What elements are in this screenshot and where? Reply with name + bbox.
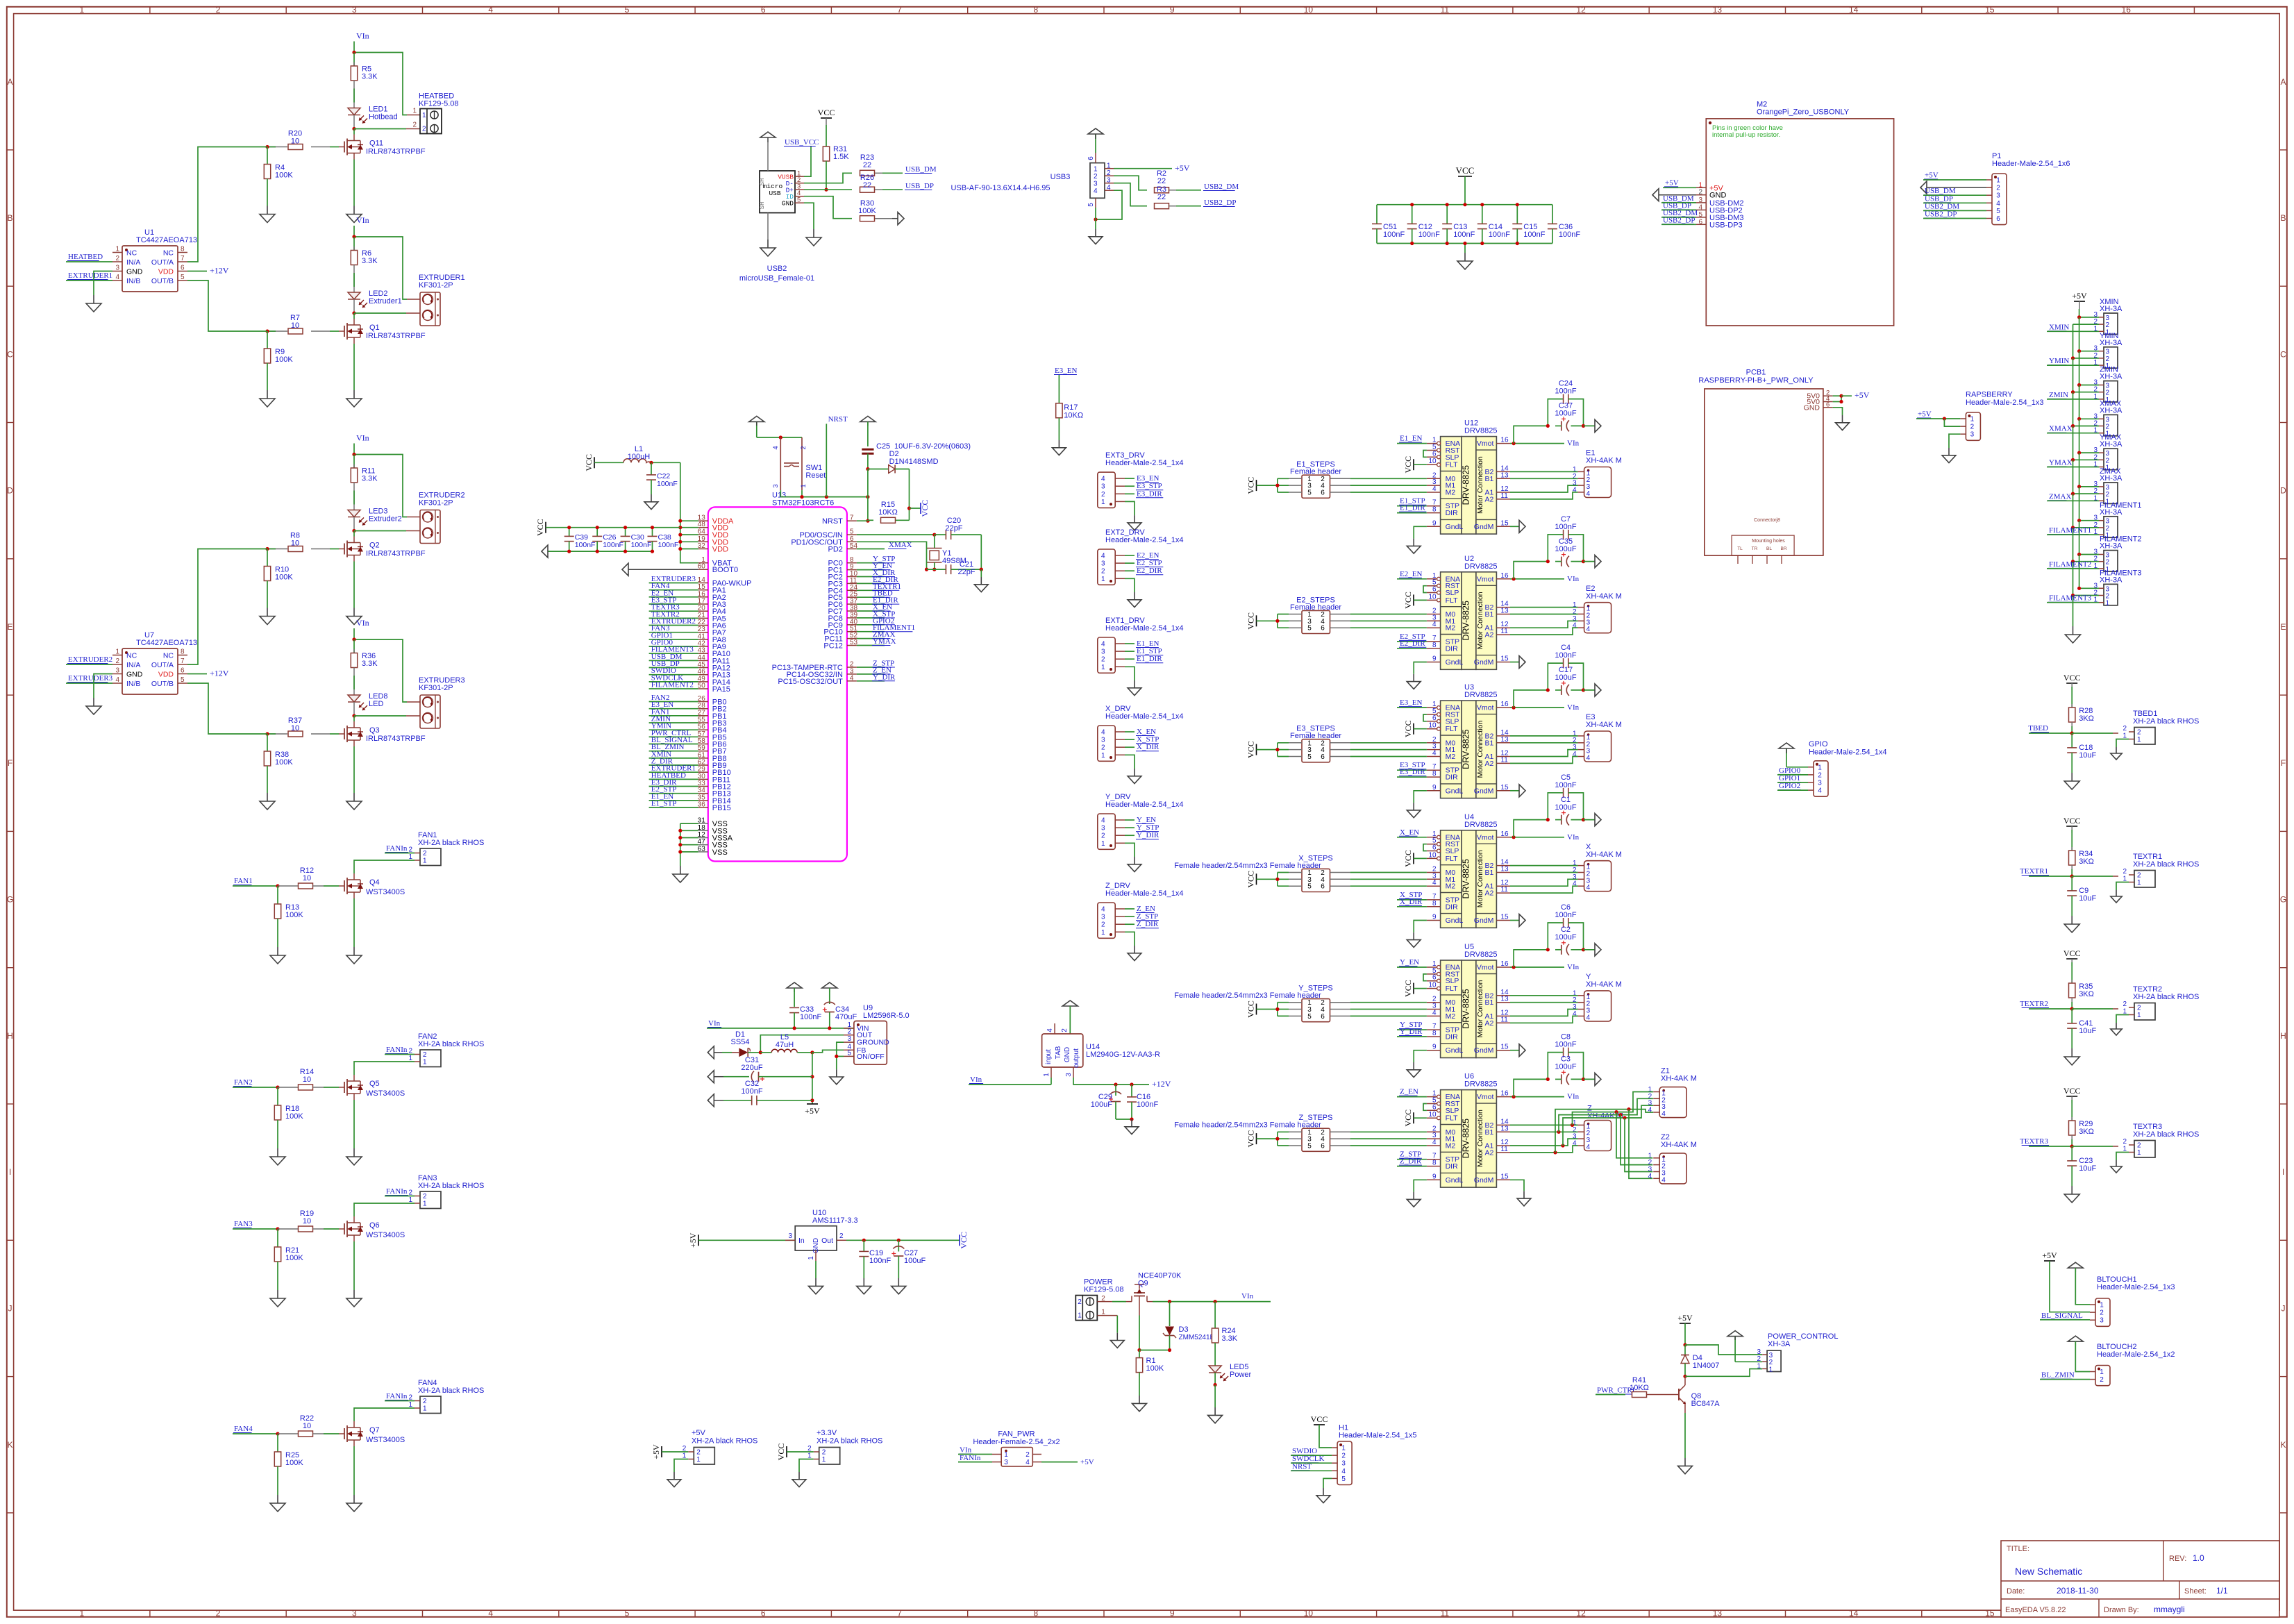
transistor Q5 WST3400S bbox=[339, 1075, 405, 1100]
wire +5V to XMIN pin3 bbox=[2079, 317, 2099, 318]
header P1 Header-Male-2.54_1x6 bbox=[1986, 152, 2070, 225]
ground below Z_DRV bbox=[1134, 946, 1135, 953]
svg-text:E1_EN: E1_EN bbox=[1400, 435, 1422, 443]
svg-text:Header-Male-2.54_1x2: Header-Male-2.54_1x2 bbox=[2097, 1350, 2175, 1359]
svg-text:6: 6 bbox=[1432, 450, 1437, 458]
svg-text:2018-11-30: 2018-11-30 bbox=[2057, 1586, 2099, 1596]
svg-text:6: 6 bbox=[1321, 883, 1325, 891]
wire U6 B1 to Z pin2 bbox=[1510, 1131, 1578, 1132]
svg-text:STM32F103RCT6: STM32F103RCT6 bbox=[772, 499, 834, 507]
wire +5V to YMAX pin3 bbox=[2079, 452, 2099, 453]
junction +5V rail FILAMENT2 bbox=[2077, 553, 2081, 556]
power flag +12V at U7 VDD bbox=[187, 669, 229, 678]
svg-text:22pF: 22pF bbox=[945, 524, 962, 533]
svg-text:9: 9 bbox=[1432, 1173, 1437, 1180]
svg-text:22: 22 bbox=[1157, 193, 1166, 201]
svg-text:FILAMENT3: FILAMENT3 bbox=[2049, 594, 2092, 603]
net label Z_DIR (Z_DRV) bbox=[1125, 920, 1159, 928]
svg-text:6: 6 bbox=[181, 265, 185, 272]
ground at TEXTR2 pin1 bbox=[2116, 1023, 2117, 1029]
svg-text:100uF: 100uF bbox=[1555, 1063, 1576, 1071]
svg-text:1: 1 bbox=[1101, 664, 1105, 671]
wire U2 RST-SLP loop bbox=[1423, 586, 1427, 593]
power flag VCC at Y_STEPS bbox=[1246, 1001, 1278, 1018]
header H1 Header-Male-2.54_1x5 bbox=[1332, 1423, 1416, 1484]
wire +3.3V header pin1 to ground bbox=[799, 1459, 814, 1473]
svg-text:K: K bbox=[2280, 1440, 2286, 1450]
svg-text:1: 1 bbox=[1818, 764, 1822, 771]
svg-text:A2: A2 bbox=[1485, 889, 1494, 898]
svg-text:4: 4 bbox=[1432, 621, 1437, 628]
svg-text:2: 2 bbox=[839, 1232, 844, 1240]
svg-text:3: 3 bbox=[352, 5, 357, 15]
junction +5V rail FILAMENT1 bbox=[2077, 519, 2081, 522]
svg-text:FILAMENT2: FILAMENT2 bbox=[2049, 560, 2091, 569]
svg-text:16: 16 bbox=[1500, 572, 1509, 580]
svg-text:Q7: Q7 bbox=[369, 1426, 380, 1434]
svg-text:In: In bbox=[798, 1237, 805, 1245]
junction FAN1 bbox=[276, 884, 279, 887]
svg-text:E2_DIR: E2_DIR bbox=[1137, 567, 1162, 575]
svg-text:USB-AF-90-13.6X14.4-H6.95: USB-AF-90-13.6X14.4-H6.95 bbox=[951, 184, 1050, 192]
transistor Q8 BC847A bbox=[1669, 1376, 1720, 1413]
svg-text:VIn: VIn bbox=[356, 618, 369, 628]
net label FANIn (FAN3) bbox=[385, 1187, 415, 1196]
svg-text:M2: M2 bbox=[1446, 1012, 1456, 1021]
svg-text:3: 3 bbox=[1101, 483, 1105, 491]
wire U4 A1 to X pin3 bbox=[1510, 879, 1578, 886]
svg-text:6: 6 bbox=[1432, 586, 1437, 594]
resistor R4 100K bbox=[264, 147, 293, 206]
capacitor C37 100uF bbox=[1546, 402, 1585, 432]
svg-text:2: 2 bbox=[2137, 872, 2141, 880]
svg-text:10KΩ: 10KΩ bbox=[1630, 1384, 1649, 1392]
svg-text:M2: M2 bbox=[1446, 489, 1456, 497]
wire +5V endstop rail bbox=[2079, 309, 2080, 317]
wire GND rail segment below FILAMENT2 bbox=[2073, 562, 2074, 596]
svg-text:DRV8825: DRV8825 bbox=[1464, 427, 1498, 435]
svg-text:1: 1 bbox=[423, 857, 427, 865]
junction FAN4 bbox=[276, 1432, 279, 1435]
svg-text:2: 2 bbox=[1101, 744, 1105, 752]
stepper driver U5 DRV8825 bbox=[1427, 943, 1510, 1058]
power flag VIn (Q11 channel) bbox=[354, 31, 369, 53]
net label VIn (U9) bbox=[707, 1019, 854, 1030]
svg-text:3KΩ: 3KΩ bbox=[2079, 714, 2094, 723]
junction +5V PC bbox=[1683, 1343, 1686, 1346]
junction C25/D2 bbox=[866, 467, 869, 471]
svg-text:A2: A2 bbox=[1485, 631, 1494, 639]
ground at TEXTR1 pin1 bbox=[2116, 890, 2117, 896]
svg-text:1: 1 bbox=[115, 246, 119, 253]
ground below C22 bbox=[651, 494, 652, 502]
power flag VCC at U3 FLT bbox=[1403, 720, 1427, 737]
svg-text:DRV-8825: DRV-8825 bbox=[1462, 859, 1471, 898]
connector ZMIN XH-3A bbox=[2093, 366, 2123, 404]
svg-text:6: 6 bbox=[1432, 844, 1437, 852]
svg-text:3KΩ: 3KΩ bbox=[2079, 857, 2094, 866]
svg-text:2: 2 bbox=[115, 658, 119, 665]
svg-text:Motor Connection: Motor Connection bbox=[1476, 592, 1484, 649]
ground flag above C34 bbox=[822, 982, 837, 1004]
junction gate divider Q2 bbox=[265, 547, 269, 551]
svg-text:XH-3A: XH-3A bbox=[2100, 440, 2123, 449]
power flag VCC at U6 FLT bbox=[1403, 1110, 1427, 1127]
power flag VCC at E2_STEPS bbox=[1246, 612, 1278, 630]
svg-text:2: 2 bbox=[1025, 1451, 1030, 1459]
wire Q7 drain to FAN4 pin1 bbox=[354, 1408, 415, 1421]
power flag +5V (endstop rail) bbox=[2072, 291, 2087, 309]
resistor R30 100K bbox=[858, 199, 892, 221]
svg-text:100nF: 100nF bbox=[1418, 231, 1440, 239]
net label NRST (SW1) bbox=[826, 415, 848, 497]
svg-text:GndL: GndL bbox=[1446, 787, 1464, 795]
capacitor C16 100nF bbox=[1127, 1085, 1158, 1119]
svg-text:7: 7 bbox=[181, 255, 185, 262]
wire Q7 source to ground bbox=[353, 1446, 355, 1495]
svg-text:1: 1 bbox=[1996, 177, 2000, 185]
svg-text:15: 15 bbox=[1985, 5, 1995, 15]
junction L1/C22 bbox=[649, 461, 653, 464]
wire +5V to FILAMENT3 pin3 bbox=[2079, 587, 2099, 589]
junction below LED2 bbox=[352, 311, 355, 315]
svg-text:6: 6 bbox=[1087, 156, 1095, 160]
svg-text:11: 11 bbox=[1500, 1016, 1508, 1023]
svg-text:100nF: 100nF bbox=[1489, 231, 1510, 239]
connector EXTRUDER3 KF301-2P bbox=[419, 676, 465, 728]
svg-text:54: 54 bbox=[850, 542, 858, 550]
svg-text:VCC: VCC bbox=[2063, 1086, 2081, 1096]
power flag VCC at U12 FLT bbox=[1403, 456, 1427, 474]
svg-text:EXTRUDER3: EXTRUDER3 bbox=[68, 674, 113, 683]
svg-text:FANIn: FANIn bbox=[386, 1046, 408, 1054]
svg-text:OUT/B: OUT/B bbox=[151, 680, 174, 688]
svg-text:New Schematic: New Schematic bbox=[2015, 1566, 2082, 1577]
svg-text:1N4007: 1N4007 bbox=[1693, 1362, 1720, 1370]
svg-text:63: 63 bbox=[698, 845, 706, 853]
svg-text:+3.3V: +3.3V bbox=[817, 1429, 837, 1437]
diode D4 1N4007 bbox=[1681, 1345, 1719, 1376]
wire U3 RST-SLP loop bbox=[1423, 714, 1427, 721]
svg-text:BL: BL bbox=[1766, 546, 1772, 551]
wire Q4 source to ground bbox=[353, 898, 355, 947]
svg-text:2: 2 bbox=[1996, 185, 2000, 192]
svg-text:Vmot: Vmot bbox=[1477, 440, 1494, 448]
svg-text:VCC: VCC bbox=[2063, 948, 2081, 958]
wire U10 GND to ground bbox=[815, 1261, 817, 1278]
svg-text:5: 5 bbox=[1996, 208, 2000, 215]
resistor R6 3.3K bbox=[351, 237, 378, 292]
net label FILAMENT2 bbox=[2047, 560, 2099, 569]
svg-text:4: 4 bbox=[1586, 490, 1591, 498]
capacitor C18 10uF bbox=[2067, 733, 2096, 773]
svg-text:3: 3 bbox=[1101, 914, 1105, 921]
svg-text:VCC: VCC bbox=[959, 1232, 969, 1249]
header Y_DRV Header-Male-2.54_1x4 bbox=[1098, 793, 1184, 849]
net label E1_EN bbox=[1397, 435, 1427, 444]
junction +5V rail ZMAX bbox=[2077, 485, 2081, 488]
svg-text:2: 2 bbox=[216, 5, 221, 15]
svg-text:100uF: 100uF bbox=[1555, 673, 1576, 682]
wire POWER pin1 to ground bbox=[1097, 1316, 1117, 1333]
resistor R13 100K bbox=[274, 886, 303, 947]
ground at PCB1 bbox=[1842, 415, 1843, 423]
wire GND rail to ZMAX pin2 bbox=[2073, 493, 2100, 494]
power flag +5V (U10) bbox=[688, 1232, 795, 1248]
ground flag at U5 GndM bbox=[1510, 1044, 1525, 1057]
wire U3 GndL to ground bbox=[1414, 791, 1427, 803]
svg-text:OUT/B: OUT/B bbox=[151, 277, 174, 285]
svg-text:Header-Female-2.54_2x2: Header-Female-2.54_2x2 bbox=[973, 1438, 1060, 1446]
wire GND rail segment below XMIN bbox=[2073, 324, 2074, 358]
power flag +12V at U1 VDD bbox=[187, 266, 229, 276]
capacitor C3 100uF bbox=[1546, 1055, 1585, 1085]
net label ZMAX bbox=[2047, 492, 2099, 501]
svg-text:8: 8 bbox=[1432, 506, 1437, 514]
wire U6 B1 to Z1 pin2 bbox=[1557, 1098, 1653, 1134]
ground at Q5 source bbox=[353, 1148, 355, 1157]
svg-text:2: 2 bbox=[423, 1398, 427, 1405]
svg-text:13: 13 bbox=[1500, 471, 1509, 479]
svg-text:FLT: FLT bbox=[1446, 985, 1458, 993]
svg-text:GROUND: GROUND bbox=[857, 1039, 889, 1047]
wire cap bank to ground bbox=[1464, 244, 1466, 253]
ground below C18 bbox=[2071, 773, 2073, 781]
power flag VCC (U10 out) bbox=[959, 1232, 969, 1249]
svg-text:X_DIR: X_DIR bbox=[1137, 743, 1159, 751]
svg-text:2: 2 bbox=[412, 122, 417, 129]
svg-text:FANIn: FANIn bbox=[386, 844, 408, 853]
wire GND rail to ZMIN pin2 bbox=[2073, 392, 2100, 393]
svg-text:Q9: Q9 bbox=[1138, 1280, 1148, 1288]
wire U4 B1 to X pin2 bbox=[1510, 872, 1578, 873]
svg-text:5: 5 bbox=[625, 5, 630, 15]
svg-text:DRV8825: DRV8825 bbox=[1464, 951, 1498, 959]
svg-text:X_DIR: X_DIR bbox=[1400, 898, 1423, 906]
svg-text:XH-3A: XH-3A bbox=[2100, 373, 2123, 381]
svg-text:4: 4 bbox=[115, 274, 119, 281]
wire GND rail to YMAX pin2 bbox=[2073, 459, 2100, 460]
svg-text:4: 4 bbox=[1025, 1459, 1030, 1466]
connector FILAMENT3 XH-3A bbox=[2093, 569, 2141, 607]
capacitor C5 100nF bbox=[1548, 773, 1583, 820]
capacitor C4 100nF bbox=[1548, 644, 1583, 690]
wire VIn to HEATBED pin1 bbox=[354, 53, 420, 115]
capacitor C30 100nF bbox=[621, 526, 652, 553]
svg-text:7: 7 bbox=[181, 658, 185, 665]
svg-text:3: 3 bbox=[1101, 737, 1105, 744]
LED LED8 LED bbox=[348, 692, 388, 716]
svg-text:XH-4AK M: XH-4AK M bbox=[1586, 980, 1622, 989]
svg-text:VIn: VIn bbox=[356, 31, 369, 41]
svg-text:4: 4 bbox=[1586, 1144, 1591, 1151]
svg-text:IN/A: IN/A bbox=[126, 661, 140, 669]
wire PCB1 5V0 pins to +5V bbox=[1833, 394, 1852, 404]
svg-text:100nF: 100nF bbox=[1137, 1100, 1158, 1109]
svg-text:Motor Connection: Motor Connection bbox=[1476, 721, 1484, 778]
crystal Y1 49S8M bbox=[927, 535, 966, 569]
ground flag above C25 bbox=[860, 416, 876, 446]
svg-text:100K: 100K bbox=[275, 574, 293, 582]
svg-text:XH-4AK M: XH-4AK M bbox=[1661, 1141, 1697, 1149]
svg-text:D: D bbox=[2280, 486, 2286, 496]
junction gate divider Q11 bbox=[265, 145, 269, 149]
net label Z_STP bbox=[1397, 1150, 1427, 1160]
op-amp driver U1 TC4427AEOA713 bbox=[122, 228, 197, 292]
svg-text:BL_ZMIN: BL_ZMIN bbox=[2041, 1371, 2075, 1380]
svg-text:XH-2A black RHOS: XH-2A black RHOS bbox=[418, 1387, 484, 1395]
junction cap bank bottom C13 bbox=[1446, 242, 1449, 245]
ground at U7 pin3 bbox=[93, 698, 94, 706]
junction +5V rail FILAMENT3 bbox=[2077, 587, 2081, 590]
capacitor C22 100nF bbox=[646, 462, 678, 494]
svg-text:4: 4 bbox=[1996, 200, 2000, 208]
wire U12 A1 to E1 pin3 bbox=[1510, 485, 1578, 492]
svg-text:10uF: 10uF bbox=[2079, 1164, 2096, 1173]
net label Y_EN bbox=[1397, 958, 1427, 967]
wire L1 to VDDA bus bbox=[651, 462, 680, 463]
svg-text:36: 36 bbox=[698, 801, 706, 809]
junction below LED8 bbox=[352, 714, 355, 717]
resistor R-gate Q3 bbox=[267, 717, 339, 737]
svg-text:Header-Male-2.54_1x4: Header-Male-2.54_1x4 bbox=[1105, 624, 1184, 633]
svg-text:GndL: GndL bbox=[1446, 1176, 1464, 1184]
wire Q8 emitter to ground bbox=[1684, 1413, 1686, 1458]
wire +5V rail segment below XMAX bbox=[2079, 419, 2080, 453]
svg-text:+12V: +12V bbox=[210, 266, 229, 276]
wire U3 B1 to E3 pin2 bbox=[1510, 742, 1578, 744]
svg-text:XMIN: XMIN bbox=[2049, 323, 2069, 331]
capacitor C17 100uF bbox=[1546, 666, 1585, 696]
header X_STEPS Female header/2.54mm2x3 Female header bbox=[1174, 854, 1427, 891]
svg-text:100nF: 100nF bbox=[657, 480, 678, 488]
svg-text:USB2_DP: USB2_DP bbox=[1204, 199, 1236, 207]
svg-text:1: 1 bbox=[1769, 1366, 1773, 1373]
capacitor C41 10uF bbox=[2067, 1009, 2096, 1048]
U13 power pins VDDA/VDD/VBAT/BOOT0 bbox=[698, 520, 708, 521]
ground below C41 bbox=[2071, 1048, 2073, 1057]
svg-text:Sheet:: Sheet: bbox=[2184, 1587, 2207, 1596]
svg-text:A2: A2 bbox=[1485, 1148, 1494, 1157]
wire U5 GndL to ground bbox=[1414, 1050, 1427, 1062]
net label E2_DIR bbox=[1397, 639, 1427, 648]
wire +5V to ZMIN pin3 bbox=[2079, 385, 2099, 386]
wire Q4 drain to FAN1 pin1 bbox=[354, 860, 415, 873]
net label FAN1 bbox=[233, 877, 278, 886]
header GPIO Header-Male-2.54_1x4 bbox=[1808, 740, 1887, 796]
net labels PC13-15 bbox=[857, 660, 895, 668]
junction cap bank top C15 bbox=[1516, 203, 1519, 206]
ground flag above USB3 bbox=[1088, 128, 1103, 153]
stepper driver U4 DRV8825 bbox=[1427, 813, 1510, 928]
svg-text:4: 4 bbox=[1432, 485, 1437, 493]
header EXT1_DRV Header-Male-2.54_1x4 bbox=[1098, 617, 1184, 673]
wire C29/C16 bottom bbox=[1116, 1117, 1134, 1121]
svg-text:13: 13 bbox=[1713, 1609, 1723, 1618]
svg-text:100nF: 100nF bbox=[575, 541, 596, 549]
svg-text:Female header/2.54mm2x3 Female: Female header/2.54mm2x3 Female header bbox=[1174, 1121, 1321, 1130]
svg-text:AMS1117-3.3: AMS1117-3.3 bbox=[812, 1216, 858, 1225]
svg-text:2: 2 bbox=[800, 446, 807, 449]
svg-text:ZMM5241B: ZMM5241B bbox=[1179, 1334, 1215, 1341]
resistor R25 100K bbox=[274, 1434, 303, 1495]
svg-text:XH-3A: XH-3A bbox=[2100, 406, 2123, 415]
svg-text:6: 6 bbox=[1321, 753, 1325, 761]
svg-text:9: 9 bbox=[1170, 1609, 1175, 1618]
connector FAN2 XH-2A black RHOS bbox=[408, 1032, 484, 1067]
svg-text:FLT: FLT bbox=[1446, 461, 1458, 469]
svg-text:1: 1 bbox=[1698, 181, 1702, 189]
svg-text:IN/A: IN/A bbox=[126, 258, 140, 267]
svg-text:DIR: DIR bbox=[1446, 903, 1459, 911]
svg-text:10: 10 bbox=[291, 137, 299, 146]
net label E2_EN (EXT2_DRV) bbox=[1125, 551, 1159, 560]
svg-text:11: 11 bbox=[1500, 492, 1508, 500]
svg-text:1: 1 bbox=[2137, 736, 2141, 744]
svg-text:2: 2 bbox=[2123, 1001, 2127, 1008]
svg-text:GndL: GndL bbox=[1446, 1046, 1464, 1055]
svg-text:Reset: Reset bbox=[805, 471, 826, 480]
junction GND rail ZMAX bbox=[2071, 492, 2075, 496]
wire USB2 GND down bbox=[804, 203, 814, 229]
svg-text:XH-2A black RHOS: XH-2A black RHOS bbox=[2133, 860, 2199, 869]
svg-text:6: 6 bbox=[761, 5, 766, 15]
svg-text:1: 1 bbox=[423, 1405, 427, 1413]
wire U6 GndL to ground bbox=[1414, 1180, 1427, 1191]
svg-text:100uF: 100uF bbox=[904, 1257, 926, 1265]
svg-text:15: 15 bbox=[1500, 914, 1509, 921]
svg-text:15: 15 bbox=[1500, 1044, 1509, 1051]
wire U2 A2 to E2 pin4 bbox=[1510, 628, 1578, 635]
svg-text:Female header: Female header bbox=[1290, 732, 1341, 740]
power flag +5V (RAPSBERRY) bbox=[1916, 410, 1960, 419]
svg-text:E3_DIR: E3_DIR bbox=[1400, 768, 1425, 776]
svg-text:10: 10 bbox=[1428, 1111, 1437, 1119]
svg-text:1: 1 bbox=[807, 1256, 815, 1260]
svg-text:NC: NC bbox=[126, 652, 137, 660]
connector X XH-4AK M bbox=[1573, 843, 1622, 891]
ground at U3 GndL bbox=[1413, 803, 1414, 810]
capacitor C24 100nF bbox=[1548, 380, 1583, 426]
connector Z2 XH-4AK M bbox=[1648, 1133, 1697, 1184]
capacitor C9 10uF bbox=[2067, 876, 2096, 916]
svg-text:Q3: Q3 bbox=[369, 726, 380, 735]
junction RAPSBERRY +5V bbox=[1943, 417, 1946, 420]
wire U6 B2 to Z pin1 bbox=[1510, 1124, 1578, 1125]
wire SW1 bottom to NRST bbox=[780, 490, 869, 499]
net label X_STP (X_DRV) bbox=[1125, 735, 1159, 744]
svg-text:VIn: VIn bbox=[1567, 703, 1580, 712]
svg-text:XH-4AK M: XH-4AK M bbox=[1661, 1075, 1697, 1083]
svg-text:8: 8 bbox=[181, 246, 185, 253]
power flag +5V (U9 out) bbox=[805, 1104, 820, 1116]
ground below C27 bbox=[898, 1278, 899, 1286]
connector ZMAX XH-3A bbox=[2093, 467, 2123, 505]
junction TEXTR1 bbox=[2070, 874, 2074, 878]
svg-text:8: 8 bbox=[181, 648, 185, 656]
svg-text:2: 2 bbox=[2137, 1005, 2141, 1012]
svg-text:6: 6 bbox=[1321, 1013, 1325, 1021]
svg-text:VCC: VCC bbox=[1403, 456, 1413, 474]
ground at Q6 source bbox=[353, 1290, 355, 1298]
capacitor C2 100uF bbox=[1546, 926, 1585, 955]
svg-text:10UF-6.3V-20%(0603): 10UF-6.3V-20%(0603) bbox=[894, 442, 971, 451]
capacitor C33 100nF bbox=[789, 1005, 821, 1028]
svg-text:WST3400S: WST3400S bbox=[366, 1231, 405, 1239]
svg-text:XH-2A black RHOS: XH-2A black RHOS bbox=[418, 839, 484, 847]
svg-text:3: 3 bbox=[1698, 196, 1702, 204]
svg-text:BR: BR bbox=[1780, 546, 1786, 551]
